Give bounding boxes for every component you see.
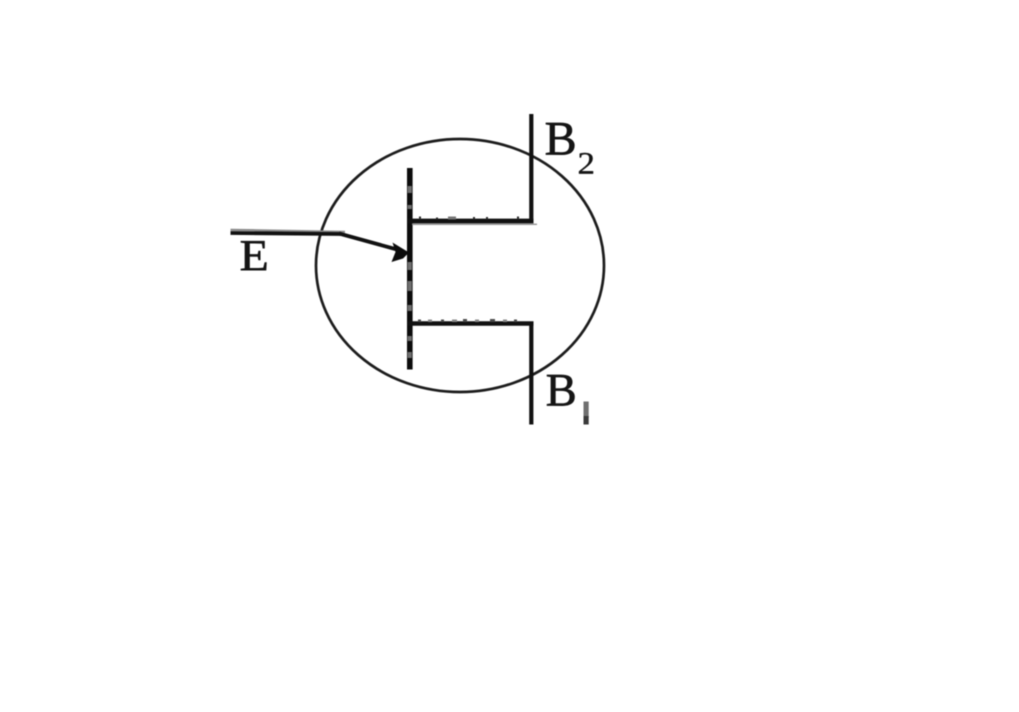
label B of B2 [546,123,574,155]
base bar scan-gray patches [408,186,412,358]
wire: B1 horizontal lead from bar [408,321,534,326]
subscript 2 of B2 [579,153,593,174]
subscript 1 of B1 (degraded to a bar in scan) [584,402,589,418]
label B of B1 [547,375,574,406]
wire: B2 vertical lead [529,114,533,223]
wire: B1 vertical lead [529,322,533,425]
scan tick artifacts above B2 lead [419,217,519,220]
wire: emitter lead E with gray top fringe [231,230,346,232]
wire: thin gray underline artifact of B2 lead [412,223,537,225]
base bar of UJT [407,168,413,370]
label E [241,241,266,270]
wire: B2 horizontal lead from bar [408,219,534,224]
scan tick artifacts above B1 lead [418,319,517,322]
transistor Q1 body circle (UJT envelope) [316,139,604,392]
emitter arrowhead [392,243,410,263]
